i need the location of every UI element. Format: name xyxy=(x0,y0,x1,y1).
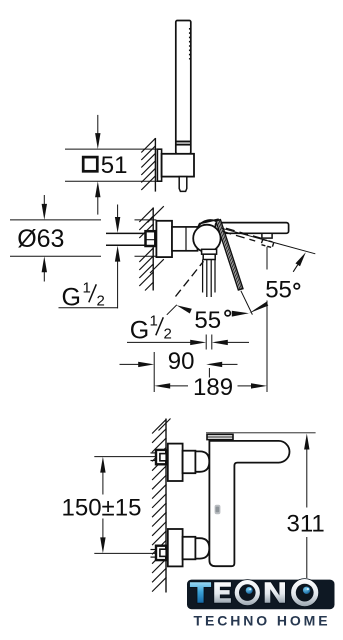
escutcheon flange (middle view) xyxy=(156,221,172,257)
lever paddle xyxy=(198,219,220,228)
supply pipe stubs (bottom view) xyxy=(151,453,156,557)
svg-text:1: 1 xyxy=(83,280,91,297)
lower union nut xyxy=(195,538,209,558)
dimension 311 arrow and line xyxy=(304,434,309,579)
lever angle right arrow xyxy=(232,302,268,317)
dimension 150 extension lines xyxy=(94,457,155,554)
label G 1/2 (lower) xyxy=(130,313,172,345)
TEONO letter E xyxy=(214,582,232,603)
svg-text:90: 90 xyxy=(168,348,195,375)
hand shower nozzle dots xyxy=(189,28,191,60)
lever bar xyxy=(216,220,243,290)
dimension G 1/2 (pipe) arrows xyxy=(115,205,120,309)
svg-text:311: 311 xyxy=(287,511,325,538)
hose connector stub below bracket xyxy=(179,177,187,192)
TEONO letter N xyxy=(264,582,285,603)
upper connector xyxy=(183,451,196,474)
wall line (bottom view) xyxy=(165,419,167,593)
lower escutcheon xyxy=(168,529,183,566)
lower wall nut xyxy=(156,546,166,560)
TEONO letter O second xyxy=(291,579,319,607)
holder bracket xyxy=(162,154,194,177)
lower connector xyxy=(183,537,196,560)
TEONO letter O first xyxy=(234,580,260,606)
spout swivel dashed lines xyxy=(223,228,265,241)
lever angle left arrow xyxy=(167,305,192,315)
hand shower joint band xyxy=(176,142,191,145)
svg-text:2: 2 xyxy=(97,293,105,310)
lever cap (front view) xyxy=(207,434,233,439)
G 1/2 (lower) right arrow xyxy=(212,340,249,345)
dimension 51 arrows xyxy=(95,115,100,215)
mixer body (middle view) xyxy=(172,227,198,251)
dimension Ø63 extension lines xyxy=(10,220,156,256)
brand mark on body xyxy=(215,505,221,514)
shower outlet below body xyxy=(202,249,217,254)
upper union nut xyxy=(195,451,209,471)
wall hatching (bottom view) xyxy=(152,419,170,592)
hand shower handle xyxy=(176,21,191,154)
cartridge ball housing xyxy=(193,225,220,252)
dimension 189 extension line xyxy=(266,247,268,392)
svg-text:TECHNO HOME: TECHNO HOME xyxy=(194,613,331,629)
spout swivel reference line xyxy=(222,228,316,254)
label 55 degrees (spout) xyxy=(265,276,299,303)
G 1/2 thread nipple nut xyxy=(146,231,156,246)
dimension 90 extension lines xyxy=(154,352,209,392)
svg-text:55: 55 xyxy=(265,276,292,303)
upper escutcheon xyxy=(168,444,183,481)
mixer body and spout outline (front view) xyxy=(209,441,289,566)
dimension 51 extension lines xyxy=(65,149,157,181)
svg-text:51: 51 xyxy=(101,152,128,179)
wall line (top view) xyxy=(154,138,156,192)
swivelled aerator dashed xyxy=(261,239,274,247)
TEONO letter T xyxy=(190,582,212,603)
square symbol for 51 xyxy=(83,157,97,171)
label G 1/2 (upper) xyxy=(62,280,105,312)
lever travel dashed line xyxy=(176,261,204,296)
dimension 90 arrows xyxy=(120,362,238,367)
leader line G 1/2 (upper) xyxy=(59,307,118,309)
lever extension line xyxy=(241,291,253,315)
spout (middle view) xyxy=(216,223,289,234)
svg-text:G: G xyxy=(130,317,149,345)
upper wall nut xyxy=(156,450,166,464)
G 1/2 (lower) extension lines xyxy=(206,335,212,350)
shower hose connection lines xyxy=(203,260,215,298)
dimension 311 extension line xyxy=(206,432,316,434)
svg-text:2: 2 xyxy=(164,326,172,343)
aerator (middle view) xyxy=(262,233,272,238)
supply pipe (middle view) xyxy=(106,233,146,245)
dimension 150 arrows xyxy=(100,457,105,554)
svg-text:1: 1 xyxy=(150,313,158,330)
hand shower holder wall plate xyxy=(157,149,161,181)
dimension 189 arrows xyxy=(154,383,267,388)
TEONO logo box xyxy=(187,580,335,610)
spout angle arrow xyxy=(293,252,306,272)
svg-text:150±15: 150±15 xyxy=(62,495,142,522)
wall hatching (middle view) xyxy=(139,206,164,290)
dimension Ø63 arrows xyxy=(42,195,47,282)
wall line (middle view) xyxy=(152,208,154,291)
label 55 degrees (lever) xyxy=(194,307,230,334)
svg-text:Ø63: Ø63 xyxy=(17,225,64,253)
leader line G 1/2 (lower) with arrow xyxy=(127,340,206,345)
svg-text:55: 55 xyxy=(194,307,221,334)
svg-text:189: 189 xyxy=(193,374,233,401)
wall hatching (top view) xyxy=(141,138,155,190)
